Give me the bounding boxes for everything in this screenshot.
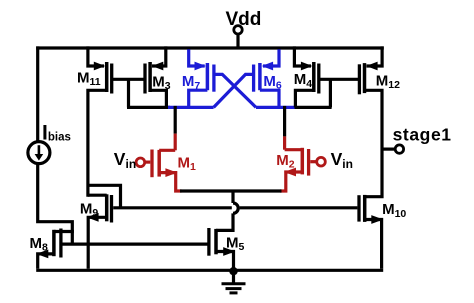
wire M2 drain to node B (283, 106, 286, 136)
transistor M6 (254, 49, 279, 107)
wire gate M11-M3 (112, 78, 145, 81)
wire M1 drain to node A (174, 106, 177, 134)
node A wire (M3/M7 drains) (127, 106, 170, 109)
wire M4 diode connection (329, 79, 332, 107)
transistor M8 (36, 229, 74, 269)
wire top Vdd rail (36, 46, 384, 49)
transistor M11 (88, 46, 112, 196)
wire cross-couple M6 gate to node A (214, 74, 254, 107)
ground symbol (222, 270, 246, 293)
wire Ibias to M8 drain (38, 163, 73, 244)
svg-text:stage1: stage1 (393, 125, 452, 145)
junction dot M5 source / rail (229, 267, 237, 275)
transistor M12 (359, 46, 382, 196)
wire gate M8-M5 (61, 243, 209, 246)
transistor M10 (359, 195, 383, 269)
node B wire (M4/M6 drains) (256, 106, 296, 109)
wire gate M4-M12 (319, 78, 360, 81)
current source Ibias (28, 46, 50, 163)
wire tail to M5 drain with hop (231, 191, 234, 203)
wire M9 gate to M10 gate (113, 206, 232, 209)
transistor M2 (280, 148, 325, 191)
transistor M7 (189, 49, 214, 107)
transistor M4 (294, 46, 318, 107)
wire bottom ground rail (36, 269, 383, 272)
transistor M1 (136, 150, 181, 192)
wire tail node M1-M2 sources (180, 189, 282, 192)
transistor M5 (209, 228, 235, 269)
wire cross-couple M7 gate to node B (214, 74, 256, 107)
svg-text:Vdd: Vdd (226, 9, 262, 30)
transistor M3 (145, 46, 166, 107)
transistor M9 (87, 185, 121, 268)
node Vdd terminal (234, 26, 242, 50)
node stage1 terminal (382, 145, 404, 153)
wire M3 diode connection (127, 79, 130, 107)
